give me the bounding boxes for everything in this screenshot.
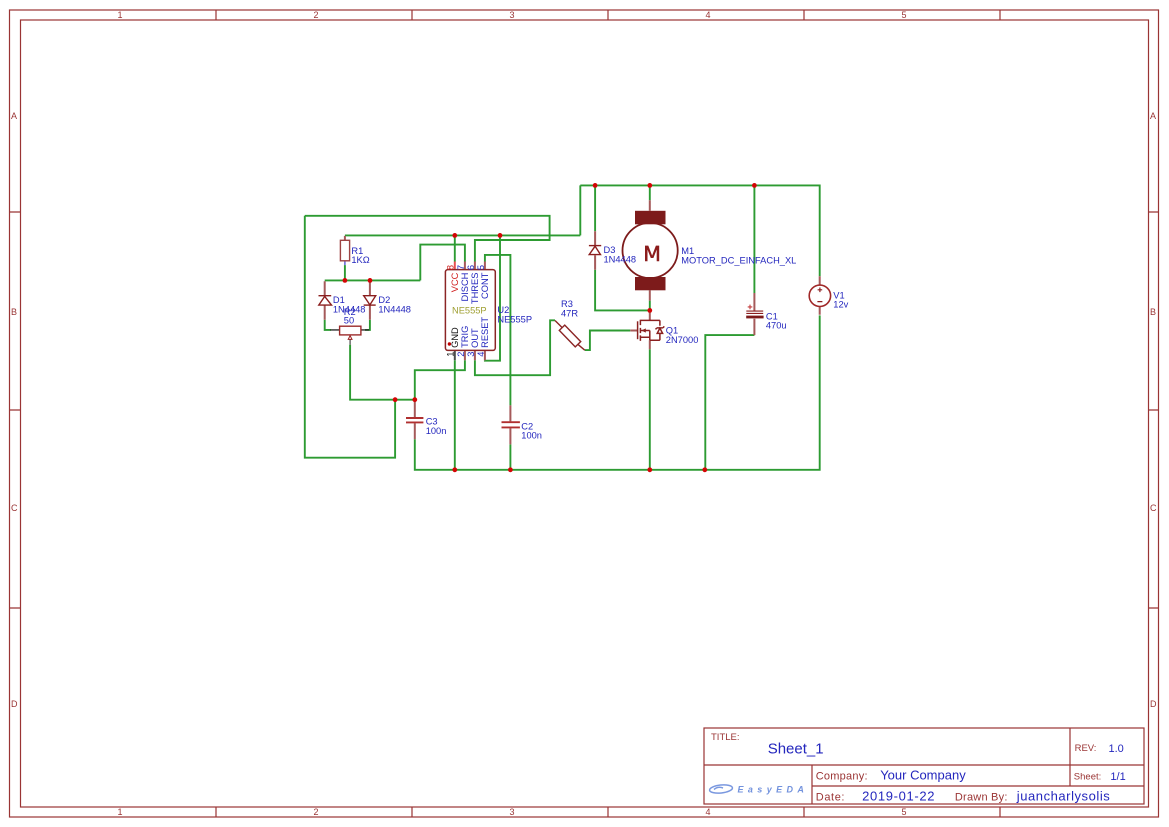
svg-text:2: 2 <box>313 807 318 817</box>
svg-text:Sheet:: Sheet: <box>1074 771 1101 782</box>
svg-text:Your Company: Your Company <box>880 768 966 783</box>
svg-text:2: 2 <box>456 352 466 357</box>
svg-text:RESET: RESET <box>480 317 490 348</box>
svg-text:C: C <box>1150 503 1157 513</box>
svg-text:A: A <box>11 111 17 121</box>
svg-text:CONT: CONT <box>480 272 490 299</box>
svg-text:12v: 12v <box>833 300 848 310</box>
svg-text:50: 50 <box>344 316 354 326</box>
svg-text:2N7000: 2N7000 <box>666 335 699 345</box>
svg-text:Sheet_1: Sheet_1 <box>768 740 824 757</box>
svg-text:100n: 100n <box>426 426 447 436</box>
svg-text:3: 3 <box>466 352 476 357</box>
svg-text:1: 1 <box>117 807 122 817</box>
svg-text:TRIG: TRIG <box>460 326 470 348</box>
svg-text:B: B <box>11 307 17 317</box>
svg-text:100n: 100n <box>521 431 542 441</box>
svg-text:4: 4 <box>705 10 710 20</box>
svg-text:1: 1 <box>117 10 122 20</box>
svg-text:2019-01-22: 2019-01-22 <box>862 788 935 803</box>
svg-text:THRES: THRES <box>470 273 480 305</box>
svg-text:Drawn By:: Drawn By: <box>955 791 1008 803</box>
svg-text:C: C <box>11 503 18 513</box>
svg-text:VCC: VCC <box>450 272 460 292</box>
svg-text:Date:: Date: <box>816 791 845 803</box>
svg-text:GND: GND <box>450 327 460 348</box>
svg-text:3: 3 <box>509 10 514 20</box>
svg-text:NE555P: NE555P <box>452 306 487 316</box>
svg-text:D: D <box>1150 699 1157 709</box>
svg-text:1/1: 1/1 <box>1110 771 1125 783</box>
svg-text:5: 5 <box>901 807 906 817</box>
svg-text:3: 3 <box>509 807 514 817</box>
svg-text:1KΩ: 1KΩ <box>351 255 369 265</box>
svg-text:A: A <box>1150 111 1156 121</box>
svg-text:47R: 47R <box>561 308 578 318</box>
svg-text:4: 4 <box>476 352 486 357</box>
svg-text:B: B <box>1150 307 1156 317</box>
svg-text:1N4448: 1N4448 <box>604 255 637 265</box>
svg-text:8: 8 <box>446 265 456 270</box>
svg-text:1N4448: 1N4448 <box>378 305 411 315</box>
svg-text:6: 6 <box>466 265 476 270</box>
svg-text:EasyEDA: EasyEDA <box>738 784 809 794</box>
svg-text:5: 5 <box>476 265 486 270</box>
svg-text:MOTOR_DC_EINFACH_XL: MOTOR_DC_EINFACH_XL <box>681 255 796 265</box>
svg-text:1: 1 <box>446 352 456 357</box>
svg-text:2: 2 <box>313 10 318 20</box>
svg-text:TITLE:: TITLE: <box>711 732 740 743</box>
svg-text:5: 5 <box>901 10 906 20</box>
svg-text:D: D <box>11 699 18 709</box>
svg-text:470u: 470u <box>766 321 787 331</box>
svg-text:4: 4 <box>705 807 710 817</box>
svg-text:NE555P: NE555P <box>497 314 532 324</box>
svg-text:DISCH: DISCH <box>460 273 470 302</box>
svg-text:REV:: REV: <box>1075 743 1097 754</box>
svg-text:7: 7 <box>456 265 466 270</box>
svg-text:Company:: Company: <box>816 771 868 783</box>
svg-text:OUT: OUT <box>470 328 480 348</box>
svg-text:1.0: 1.0 <box>1109 743 1124 755</box>
svg-text:juancharlysolis: juancharlysolis <box>1016 788 1111 803</box>
